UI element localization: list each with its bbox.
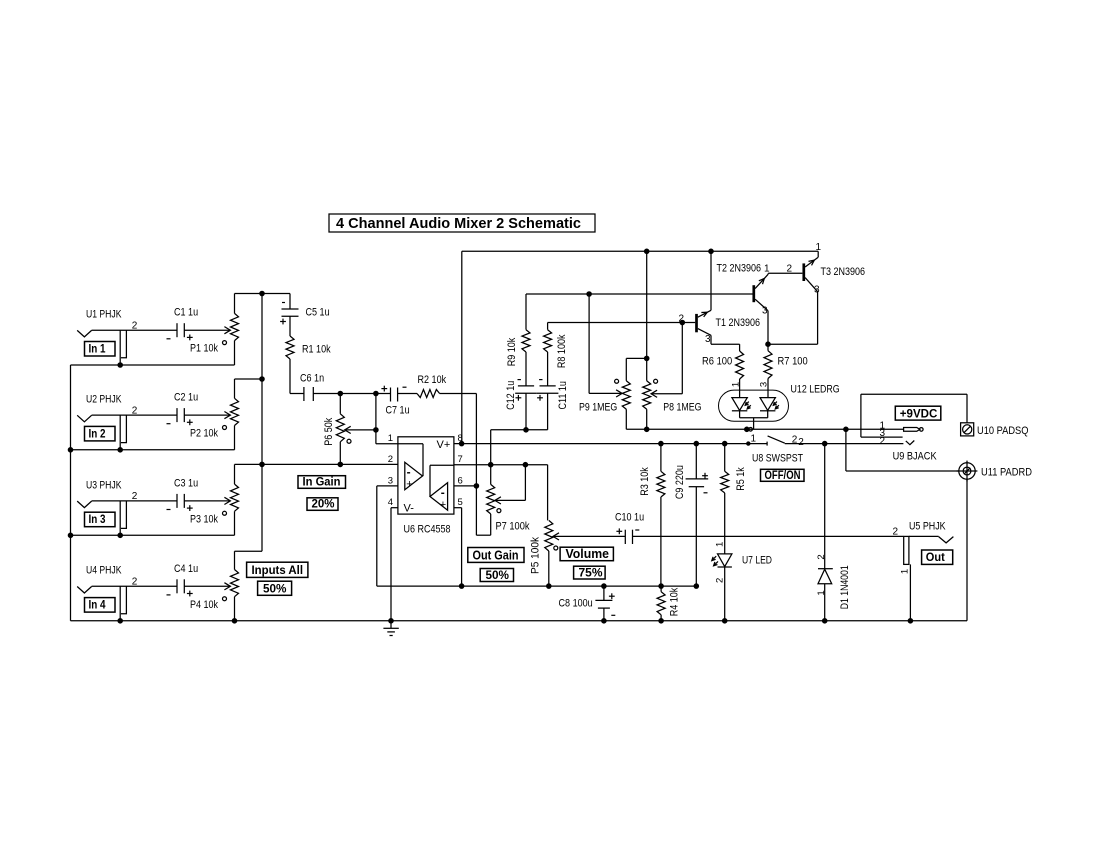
svg-text:P8 1MEG: P8 1MEG: [663, 402, 701, 414]
svg-text:7: 7: [458, 454, 463, 465]
svg-text:Inputs All: Inputs All: [252, 563, 304, 577]
svg-text:50%: 50%: [486, 568, 510, 582]
svg-text:U6 RC4558: U6 RC4558: [404, 524, 451, 536]
svg-text:C9 220u: C9 220u: [674, 465, 686, 499]
svg-text:R1 10k: R1 10k: [302, 344, 331, 356]
svg-text:U3 PHJK: U3 PHJK: [86, 479, 122, 491]
svg-text:2: 2: [132, 320, 138, 331]
svg-text:U2 PHJK: U2 PHJK: [86, 394, 122, 406]
svg-text:T3 2N3906: T3 2N3906: [821, 266, 866, 278]
svg-text:U10 PADSQ: U10 PADSQ: [977, 425, 1029, 437]
svg-text:OFF/ON: OFF/ON: [765, 470, 801, 482]
svg-text:-: -: [407, 465, 411, 479]
svg-text:C7 1u: C7 1u: [386, 405, 410, 417]
svg-text:2: 2: [388, 454, 393, 465]
svg-text:R4 10k: R4 10k: [669, 587, 681, 616]
svg-text:R9 10k: R9 10k: [506, 337, 518, 366]
svg-text:P1 10k: P1 10k: [190, 343, 218, 355]
svg-text:C1 1u: C1 1u: [174, 307, 198, 319]
svg-text:U8 SWSPST: U8 SWSPST: [752, 453, 803, 465]
svg-text:1: 1: [816, 590, 827, 595]
svg-text:3: 3: [388, 475, 393, 486]
svg-text:2: 2: [787, 263, 793, 274]
svg-text:2: 2: [132, 405, 138, 416]
svg-text:U4 PHJK: U4 PHJK: [86, 565, 122, 577]
svg-text:20%: 20%: [312, 497, 335, 511]
svg-text:1: 1: [751, 433, 757, 444]
svg-text:In 3: In 3: [89, 514, 106, 526]
svg-text:2: 2: [880, 436, 886, 447]
svg-text:1: 1: [900, 569, 911, 574]
svg-text:P2 10k: P2 10k: [190, 428, 218, 440]
svg-text:P4 10k: P4 10k: [190, 599, 218, 611]
svg-text:P7 100k: P7 100k: [496, 521, 530, 533]
svg-text:1: 1: [388, 433, 393, 444]
svg-text:3: 3: [705, 334, 711, 345]
svg-text:6: 6: [458, 475, 463, 486]
svg-text:2: 2: [679, 313, 685, 324]
svg-text:R2 10k: R2 10k: [418, 374, 447, 386]
svg-text:P5 100k: P5 100k: [529, 537, 541, 574]
svg-text:C6 1n: C6 1n: [300, 373, 324, 385]
svg-text:T2 2N3906: T2 2N3906: [717, 263, 762, 275]
svg-text:2: 2: [893, 527, 899, 538]
svg-text:3: 3: [814, 285, 820, 296]
svg-text:1: 1: [764, 263, 770, 274]
svg-text:In Gain: In Gain: [303, 475, 341, 489]
svg-text:5: 5: [458, 497, 463, 508]
svg-text:1: 1: [714, 542, 725, 547]
svg-text:2: 2: [816, 554, 827, 559]
svg-text:+: +: [440, 499, 446, 511]
svg-text:C3 1u: C3 1u: [174, 477, 198, 489]
svg-text:1: 1: [816, 242, 822, 253]
svg-text:2: 2: [798, 437, 804, 448]
svg-text:4: 4: [388, 497, 393, 508]
svg-text:-: -: [441, 485, 445, 499]
svg-text:In 1: In 1: [89, 344, 107, 356]
svg-text:C8 100u: C8 100u: [559, 598, 593, 610]
svg-text:2: 2: [132, 491, 138, 502]
svg-text:+: +: [406, 478, 412, 490]
svg-text:U7 LED: U7 LED: [742, 555, 772, 567]
svg-text:In 2: In 2: [89, 428, 106, 440]
svg-text:75%: 75%: [579, 565, 603, 579]
svg-text:50%: 50%: [263, 581, 287, 595]
svg-text:1: 1: [731, 382, 742, 387]
svg-text:U11 PADRD: U11 PADRD: [981, 467, 1032, 479]
svg-text:R7 100: R7 100: [778, 356, 808, 368]
svg-text:Out: Out: [926, 550, 945, 564]
svg-text:R5 1k: R5 1k: [735, 467, 747, 491]
svg-text:2: 2: [792, 434, 798, 445]
svg-text:R3 10k: R3 10k: [639, 467, 651, 496]
svg-text:3: 3: [759, 382, 770, 387]
svg-text:2: 2: [714, 578, 725, 583]
svg-text:P6 50k: P6 50k: [323, 417, 335, 445]
svg-text:R6 100: R6 100: [702, 356, 732, 368]
svg-text:+9VDC: +9VDC: [900, 406, 938, 420]
svg-text:C11 1u: C11 1u: [557, 381, 569, 410]
svg-text:U1 PHJK: U1 PHJK: [86, 309, 122, 321]
svg-text:T1 2N3906: T1 2N3906: [716, 317, 761, 329]
svg-text:C10 1u: C10 1u: [615, 512, 644, 524]
svg-text:Volume: Volume: [566, 547, 610, 561]
svg-text:C12 1u: C12 1u: [505, 381, 517, 410]
svg-text:4 Channel Audio Mixer 2 Schema: 4 Channel Audio Mixer 2 Schematic: [336, 216, 581, 232]
svg-text:2: 2: [132, 577, 138, 588]
svg-text:R8 100k: R8 100k: [556, 334, 568, 368]
svg-text:V+: V+: [437, 439, 451, 451]
svg-text:V-: V-: [404, 503, 415, 515]
svg-text:P3 10k: P3 10k: [190, 513, 218, 525]
svg-text:In 4: In 4: [89, 600, 107, 612]
svg-text:C2 1u: C2 1u: [174, 392, 198, 404]
svg-text:P9 1MEG: P9 1MEG: [579, 402, 617, 414]
svg-text:U12 LEDRG: U12 LEDRG: [791, 384, 840, 396]
svg-text:3: 3: [762, 306, 768, 317]
svg-text:Out Gain: Out Gain: [473, 548, 519, 562]
svg-text:D1 1N4001: D1 1N4001: [839, 565, 851, 609]
svg-text:U9 BJACK: U9 BJACK: [893, 451, 938, 463]
svg-text:U5 PHJK: U5 PHJK: [909, 520, 946, 532]
svg-text:C4 1u: C4 1u: [174, 563, 198, 575]
svg-text:C5 1u: C5 1u: [306, 307, 330, 319]
